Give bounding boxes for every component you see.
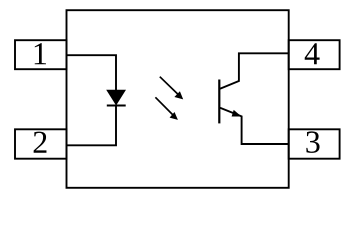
wire pin1 to LED anode xyxy=(67,55,117,90)
wire LED cathode to pin2 xyxy=(67,105,117,145)
light arrow 1 shaft xyxy=(160,77,178,95)
phototransistor Q1 emitter arrowhead xyxy=(232,110,242,117)
pin 4 pad xyxy=(289,40,340,69)
pin 3 label xyxy=(306,131,319,153)
pin 4 label xyxy=(305,43,320,64)
light arrow 2 head xyxy=(170,112,178,120)
pin 2 label xyxy=(34,132,47,153)
phototransistor Q1 collector wire to pin4 xyxy=(220,53,289,89)
pin 3 pad xyxy=(289,129,340,158)
phototransistor Q1 emitter wire to pin3 xyxy=(220,108,289,144)
pin 1 pad xyxy=(15,40,67,69)
phototransistor Q1 base bar xyxy=(218,80,220,124)
pin 1 label xyxy=(35,43,46,64)
pin 2 pad xyxy=(15,129,67,158)
light arrow 2 shaft xyxy=(155,97,173,115)
light arrow 1 head xyxy=(174,91,183,99)
LED D1 cathode bar xyxy=(107,104,126,106)
LED D1 triangle (anode) xyxy=(107,90,125,104)
IC body outline xyxy=(67,10,289,188)
